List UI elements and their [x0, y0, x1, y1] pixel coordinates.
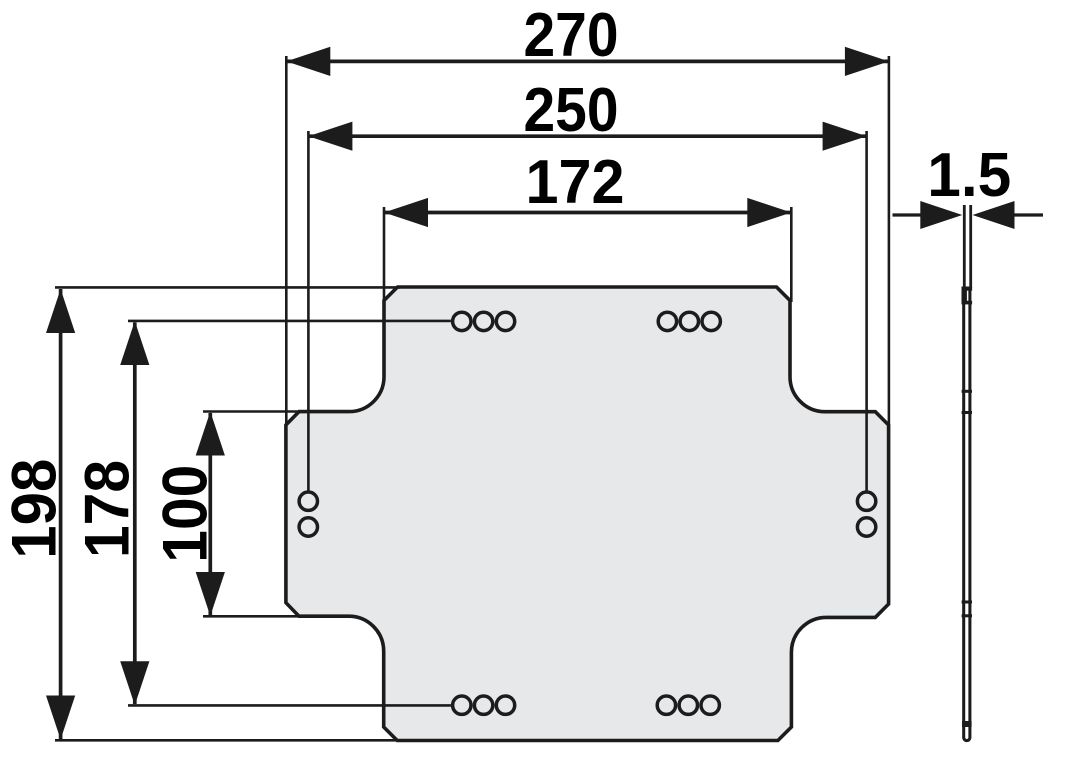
leader line left — [893, 213, 923, 216]
arrowhead right — [747, 198, 791, 227]
side view extension line left — [963, 205, 966, 288]
extension line bottom — [55, 739, 397, 742]
arrowhead left — [286, 47, 330, 76]
extension line bottom — [128, 704, 451, 707]
dimension 172 (top tab width) — [384, 147, 791, 302]
svg-text:100: 100 — [150, 465, 220, 563]
arrowhead right — [845, 47, 889, 76]
extension line left — [307, 131, 310, 491]
leader line right — [1014, 213, 1043, 216]
dimension 270 (overall width) — [286, 0, 889, 426]
extension line right — [888, 56, 891, 426]
dimension 198 (overall height) — [0, 287, 400, 740]
svg-text:178: 178 — [73, 460, 143, 558]
extension line right — [865, 131, 868, 491]
arrowhead top — [120, 321, 149, 365]
arrowhead bottom — [196, 572, 225, 616]
side view bottom dash — [962, 721, 972, 727]
extension line left — [285, 56, 288, 425]
svg-text:250: 250 — [524, 75, 619, 145]
arrowhead top — [46, 289, 75, 333]
dimension line — [208, 413, 212, 615]
arrowhead pointing left — [973, 201, 1015, 229]
extension line bottom — [203, 615, 349, 618]
top-right hole group (3 holes) — [658, 312, 720, 330]
svg-text:172: 172 — [526, 147, 625, 217]
arrowhead left — [384, 198, 428, 227]
extension line top — [203, 410, 349, 413]
extension line top — [128, 320, 451, 323]
side view tick mark upper b — [962, 411, 972, 414]
side view top solid block — [962, 287, 973, 291]
mounting plate outline (cross-shaped plate, front view) — [286, 287, 889, 741]
svg-text:270: 270 — [524, 0, 619, 70]
arrowhead bottom — [120, 661, 149, 705]
svg-text:198: 198 — [0, 459, 70, 559]
arrowhead pointing right — [920, 201, 962, 229]
dimension line — [59, 289, 63, 740]
left side hole pair — [299, 492, 317, 536]
extension line top — [55, 286, 400, 289]
arrowhead bottom — [46, 696, 75, 740]
bottom-right hole group (3 holes) — [657, 696, 719, 714]
arrowhead right — [823, 122, 867, 151]
svg-text:1.5: 1.5 — [927, 140, 1011, 210]
side view plate outline (thin edge view) — [964, 289, 970, 741]
dimension line — [286, 60, 889, 64]
dimension 178 (hole row spacing) — [73, 321, 451, 706]
dimension 250 (side hole spacing) — [308, 75, 866, 491]
side view tick mark upper a — [962, 390, 972, 393]
dimension line — [308, 134, 866, 138]
top-left hole group (3 holes) — [453, 312, 515, 330]
dimension line — [133, 323, 137, 705]
side view tick mark lower a — [962, 601, 972, 604]
side view tick mark lower b — [962, 614, 972, 617]
extension line right — [790, 207, 793, 302]
dimension 1.5 (plate thickness) — [893, 140, 1044, 229]
arrowhead top — [196, 412, 225, 456]
arrowhead left — [308, 122, 352, 151]
bottom-left hole group (3 holes) — [453, 696, 515, 714]
right side hole pair — [857, 492, 875, 536]
dimension 100 (side arm height) — [150, 412, 349, 617]
dimension line — [384, 211, 791, 215]
side view extension line right — [969, 205, 972, 288]
extension line left — [383, 207, 386, 302]
